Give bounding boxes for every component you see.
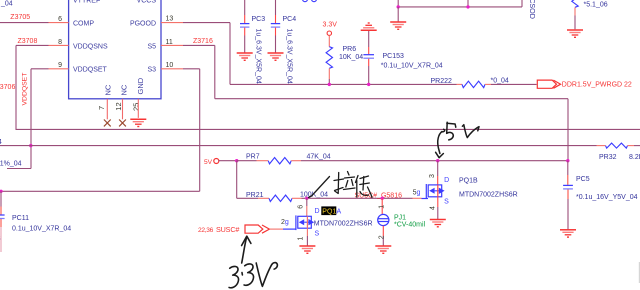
svg-text:25: 25 <box>132 103 141 111</box>
junction PQ1A drain <box>305 197 308 200</box>
svg-text:Z3716: Z3716 <box>193 38 213 45</box>
svg-text:.1%_04: .1%_04 <box>0 160 22 167</box>
wire S5 down to junction <box>567 99 569 161</box>
wire VDDQSET horizontal <box>31 68 49 70</box>
capacitor PC5 <box>567 161 569 175</box>
transistor PQ1B MTDN7002ZHS6R <box>426 184 444 199</box>
wire S5 horizontal y=98 <box>215 98 568 100</box>
svg-text:10: 10 <box>166 62 174 69</box>
svg-text:S: S <box>444 198 449 205</box>
wire horizontal y=7 <box>398 6 522 8</box>
wire PGOOD right <box>183 22 230 24</box>
svg-text:PC4: PC4 <box>283 16 297 23</box>
svg-text:PQ1B: PQ1B <box>459 177 478 184</box>
ground (PJ1) <box>375 246 391 253</box>
svg-text:8.2K: 8.2K <box>629 154 640 161</box>
svg-text:PR7: PR7 <box>246 153 260 160</box>
junction x=398 <box>397 5 400 8</box>
ground (IC pin 25) <box>130 119 146 126</box>
wire net B right of PR32 <box>634 145 640 147</box>
svg-text:GND: GND <box>136 77 145 94</box>
svg-text:DDR1.5V_PWRGD 22: DDR1.5V_PWRGD 22 <box>562 81 632 88</box>
pin stub VDDQSNS <box>49 44 69 46</box>
svg-text:8: 8 <box>58 39 62 46</box>
svg-text:PR21: PR21 <box>246 192 264 199</box>
svg-text:PR6: PR6 <box>343 46 357 53</box>
junction PC5 <box>566 159 569 162</box>
wire VDDQSNS horizontal <box>16 44 49 46</box>
wire COMP to left edge <box>0 22 49 24</box>
wire PQ1B source <box>437 197 439 207</box>
svg-text:*5.1_06: *5.1_06 <box>584 1 608 8</box>
capacitor PC153 <box>368 31 370 47</box>
svg-text:6: 6 <box>298 205 305 209</box>
svg-text:NC: NC <box>104 84 113 95</box>
junction PC11 <box>0 190 3 193</box>
wire PQ1B drain <box>437 161 439 176</box>
svg-text:A: A <box>337 208 342 215</box>
power symbol 5V circle <box>214 159 219 164</box>
ground (top net) <box>390 22 406 29</box>
ground (PC3) <box>237 53 253 60</box>
svg-text:47K_04: 47K_04 <box>307 154 331 161</box>
svg-text:PC153: PC153 <box>383 53 405 60</box>
IC PU (DDR VTT regulator, clipped at top) <box>69 0 161 99</box>
svg-text:VTTREF: VTTREF <box>73 0 100 5</box>
wire S3 down <box>199 69 201 192</box>
wire down to PR21 <box>236 161 238 199</box>
wire from top edge at x=468 <box>467 0 469 7</box>
pin stub VDDQSET <box>49 68 69 70</box>
junction PC153 / PGOOD wire <box>367 83 370 86</box>
pin stub NC 12 <box>122 99 124 120</box>
svg-text:4: 4 <box>430 206 437 210</box>
svg-text:S3: S3 <box>147 67 156 74</box>
svg-text:D: D <box>444 177 449 184</box>
svg-text:PC5: PC5 <box>576 176 590 183</box>
no-connect X on pin 7 <box>104 120 111 127</box>
capacitor PC11 <box>0 191 2 206</box>
junction PR6 / PGOOD wire <box>328 83 331 86</box>
wire PR7 out y=160 <box>301 160 568 162</box>
wire VDDQSET down <box>30 69 32 169</box>
handwritten note 5V with arrow <box>436 122 479 157</box>
wire PJ1 pin2 <box>382 226 384 236</box>
junction PQ1B drain <box>436 159 439 162</box>
ground (PQ1B source) <box>430 220 446 227</box>
svg-text:VDDQSET: VDDQSET <box>73 67 108 74</box>
power symbol 3.3V circle <box>327 31 331 35</box>
resistor *5.1_06 (clipped top) <box>572 0 578 7</box>
wire PGOOD horizontal y=84 <box>230 83 457 85</box>
wire S5 right <box>183 44 215 46</box>
wire VDDQSNS down <box>15 45 17 129</box>
svg-text:COMP: COMP <box>73 21 94 28</box>
wire S5 down <box>214 45 216 98</box>
wire SUSC# to PQ1A gate <box>270 228 283 230</box>
svg-text:S: S <box>315 230 320 237</box>
wire VDDQSET stub left <box>7 168 31 170</box>
svg-text:Z3706: Z3706 <box>0 84 15 91</box>
transistor PQ1A MTDN7002ZHS6R <box>296 215 314 230</box>
capacitor PC4 <box>275 0 277 15</box>
wire to off-page connector <box>491 83 537 85</box>
pin stub COMP <box>49 22 69 24</box>
wire PJ1 pin1 <box>381 198 383 214</box>
svg-text:1u_6.3V_X5R_04: 1u_6.3V_X5R_04 <box>255 29 262 84</box>
ground (PC4) <box>268 53 284 60</box>
resistor PR32 <box>597 145 606 147</box>
svg-text:5V: 5V <box>204 159 213 166</box>
off-page connector SUSC# <box>245 225 263 233</box>
ground (PQ1A source) <box>299 246 315 253</box>
pin stub S5 <box>161 44 183 46</box>
svg-text:MTDN7002ZHS6R: MTDN7002ZHS6R <box>314 220 373 227</box>
svg-text:1: 1 <box>378 205 385 209</box>
svg-text:04: 04 <box>0 139 2 146</box>
junction 5V branch <box>235 159 238 162</box>
svg-text:PC11: PC11 <box>12 215 29 222</box>
wire PR21 out to PQ1B gate <box>302 197 413 199</box>
svg-text:CSOD: CSOD <box>528 0 537 19</box>
svg-text:PR222: PR222 <box>431 78 453 85</box>
junction PJ1 <box>381 197 384 200</box>
svg-text:10K_04: 10K_04 <box>339 54 363 61</box>
svg-text:D: D <box>315 208 320 215</box>
svg-text:6: 6 <box>58 16 62 23</box>
ground (5.1 resistor) <box>567 30 583 37</box>
svg-text:1: 1 <box>298 237 305 241</box>
svg-text:12: 12 <box>114 102 123 110</box>
svg-text:5g: 5g <box>413 189 421 196</box>
ground inverted (PC153 top) <box>361 23 377 30</box>
inductor coil bottom (clipped at top edge) <box>303 0 308 2</box>
svg-text:8: 8 <box>0 236 1 243</box>
svg-text:*0.1u_16V_Y5V_04: *0.1u_16V_Y5V_04 <box>576 194 638 201</box>
svg-text:3: 3 <box>429 174 436 178</box>
pin stub S3 <box>161 68 183 70</box>
wire PQ1A source <box>306 228 308 236</box>
svg-text:22,36: 22,36 <box>198 227 214 234</box>
svg-text:Z3705: Z3705 <box>10 14 30 21</box>
junction x=468 <box>466 5 469 8</box>
pin stub PGOOD <box>161 22 183 24</box>
svg-text:PR32: PR32 <box>599 154 617 161</box>
svg-text:PGOOD: PGOOD <box>130 21 156 28</box>
svg-text:S5: S5 <box>147 43 156 50</box>
resistor PR6 <box>328 35 330 46</box>
wire PQ1A drain <box>306 198 308 206</box>
svg-text:0.1u_10V_X7R_04: 0.1u_10V_X7R_04 <box>12 225 71 232</box>
wire corner up at x=522 <box>521 0 523 7</box>
svg-text:*0_04: *0_04 <box>491 78 509 85</box>
wire from top edge at x=398 <box>397 0 399 7</box>
svg-text:13: 13 <box>166 16 174 23</box>
PQ1B gate lead <box>413 197 422 199</box>
svg-text:1u_6.3V_X5R_04: 1u_6.3V_X5R_04 <box>285 29 292 84</box>
svg-text:*CV-40mil: *CV-40mil <box>394 221 426 228</box>
svg-text:VDDQSET: VDDQSET <box>21 73 28 106</box>
svg-text:7: 7 <box>97 106 106 110</box>
svg-text:MTDN7002ZHS6R: MTDN7002ZHS6R <box>459 191 518 198</box>
pin stub GND 25 <box>137 99 139 118</box>
wire long net A y=129 <box>16 128 640 130</box>
no-connect X on pin 12 <box>119 120 126 127</box>
handwritten note 拉低 (pull low) <box>309 172 373 198</box>
svg-text:3.3V: 3.3V <box>323 22 338 29</box>
svg-text:2: 2 <box>378 235 385 239</box>
svg-text:PC3: PC3 <box>252 16 266 23</box>
wire PGOOD down <box>229 23 231 85</box>
svg-text:VDDQSNS: VDDQSNS <box>73 43 108 50</box>
jumper PJ1 <box>378 214 389 225</box>
svg-text:VCCS: VCCS <box>137 0 157 5</box>
PQ1A gate lead <box>283 228 296 230</box>
resistor PR7 <box>237 160 257 162</box>
ground stem (top net) <box>397 7 399 22</box>
svg-text:11: 11 <box>166 39 173 46</box>
ground (PC5) <box>560 230 576 237</box>
pin stub NC 7 <box>106 99 108 120</box>
capacitor PC3 <box>244 0 246 15</box>
resistor PR222 <box>457 83 463 85</box>
svg-text:Z3708: Z3708 <box>18 38 38 45</box>
svg-text:PQ1: PQ1 <box>322 208 336 215</box>
wire S3 right <box>183 68 200 70</box>
off-page connector DDR1.5V_PWRGD <box>537 80 556 88</box>
junction VDDQSET / long wire <box>29 144 32 147</box>
svg-text:NC: NC <box>119 84 128 95</box>
svg-text:SUSC#: SUSC# <box>216 225 239 234</box>
svg-text:_04: _04 <box>0 1 13 8</box>
faint edge artifact right <box>638 262 640 283</box>
svg-text:*0.1u_10V_X7R_04: *0.1u_10V_X7R_04 <box>381 63 443 70</box>
resistor PR21 <box>237 197 258 199</box>
svg-text:2g: 2g <box>281 219 289 226</box>
wire S3 left y=191 <box>0 190 200 192</box>
svg-text:9: 9 <box>58 62 62 69</box>
highlighted refdes PQ1A <box>321 206 341 215</box>
wire 5V to junction <box>219 160 237 162</box>
wire long net B y=146 <box>0 145 597 147</box>
handwritten note 3.3V with arrow <box>229 236 277 288</box>
